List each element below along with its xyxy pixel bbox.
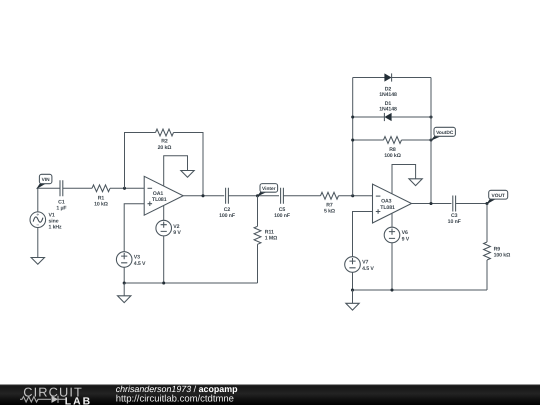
node VOUT junction — [485, 202, 488, 205]
node diode-loop left junction — [351, 194, 354, 197]
wire OA1 V- pin to V2 — [163, 206, 165, 221]
op-amp OA1 — [144, 176, 183, 215]
wire V7 to bottom rail — [352, 272, 354, 290]
voltage source V1 (sine) — [30, 212, 62, 231]
svg-text:C2: C2 — [224, 207, 231, 213]
wire C3 to VOUT node — [456, 203, 487, 205]
ground below V1 — [31, 258, 44, 265]
node Vinter junction — [256, 194, 259, 197]
svg-text:http://circuitlab.com/ctdtmne: http://circuitlab.com/ctdtmne — [116, 394, 234, 405]
wire OA3 non-inverting input to V7 — [353, 212, 373, 257]
wire V3 to bottom rail — [123, 267, 125, 283]
wire rail to ground — [123, 283, 125, 296]
svg-text:C5: C5 — [279, 207, 286, 213]
wire OA1 V+ pin to ground — [164, 156, 188, 186]
svg-text:100 kΩ: 100 kΩ — [494, 253, 511, 259]
ground OA3 positive supply — [409, 179, 422, 186]
node R8 left junction — [351, 138, 354, 141]
svg-text:VOUT: VOUT — [492, 193, 505, 199]
footer bar — [0, 385, 540, 405]
wire OA3 V- pin to V6 — [391, 213, 393, 227]
svg-text:LAB: LAB — [65, 396, 92, 405]
svg-text:1 µF: 1 µF — [56, 206, 66, 212]
resistor R11 — [254, 226, 277, 244]
svg-text:TL081: TL081 — [152, 197, 167, 203]
node OA3 output junction — [429, 202, 432, 205]
flag VOUT — [486, 190, 508, 204]
wire D1 rail left — [353, 116, 385, 118]
svg-text:100 kΩ: 100 kΩ — [384, 153, 401, 159]
logo squiggle resistor and diode — [20, 396, 65, 403]
wire V6 to bottom rail — [391, 243, 393, 290]
capacitor C5 — [274, 188, 290, 219]
node OA1 output junction — [201, 194, 204, 197]
svg-text:R7: R7 — [326, 202, 333, 208]
wire VIN to C1 — [37, 187, 60, 189]
svg-text:VoutDC: VoutDC — [436, 130, 454, 136]
svg-text:20 kΩ: 20 kΩ — [158, 145, 172, 151]
svg-text:R9: R9 — [494, 247, 501, 253]
wire feedback left leg — [125, 133, 156, 189]
svg-text:1N4148: 1N4148 — [379, 107, 397, 113]
node D1 right junction — [429, 115, 432, 118]
wire right bottom rail — [353, 289, 488, 291]
capacitor C2 — [219, 188, 235, 219]
capacitor C1 — [56, 180, 66, 211]
svg-text:V3: V3 — [134, 255, 140, 261]
resistor R7 — [321, 192, 339, 214]
wire OA3 output — [412, 203, 452, 205]
node D1 left junction — [351, 115, 354, 118]
wire C1 to R1 — [63, 187, 92, 189]
wire V1 to input node — [37, 188, 39, 212]
svg-text:C3: C3 — [451, 213, 458, 219]
svg-text:R11: R11 — [265, 229, 274, 235]
wire left feedback rail — [352, 78, 354, 196]
wire left bottom rail — [124, 282, 257, 284]
svg-text:1 kHz: 1 kHz — [49, 225, 63, 231]
node V7/ground junction — [351, 288, 354, 291]
wire R9 to bottom rail — [486, 260, 488, 290]
diode D2 — [379, 73, 397, 98]
node junction R1/R2 — [123, 187, 126, 190]
capacitor C3 — [448, 196, 461, 226]
svg-text:VIN: VIN — [42, 177, 51, 183]
wire OA1 output — [183, 195, 224, 197]
svg-text:9 V: 9 V — [173, 230, 181, 236]
svg-text:9 V: 9 V — [402, 236, 410, 242]
svg-text:chrisanderson1973 / acopamp: chrisanderson1973 / acopamp — [116, 384, 238, 394]
diode D1 — [379, 101, 397, 121]
wire rail to ground right — [352, 290, 354, 303]
svg-text:10 nF: 10 nF — [448, 219, 461, 225]
voltage source V6 — [384, 227, 410, 243]
flag VoutDC — [430, 127, 455, 141]
svg-text:4.5 V: 4.5 V — [134, 261, 146, 267]
svg-text:5 kΩ: 5 kΩ — [324, 209, 335, 215]
svg-text:OA1: OA1 — [153, 191, 164, 197]
svg-text:100 nF: 100 nF — [219, 213, 235, 219]
svg-text:R8: R8 — [389, 147, 396, 153]
wire R7 to OA3 inverting input — [339, 195, 373, 197]
wire R8 rail right — [402, 139, 432, 141]
node V2 bottom junction — [162, 281, 165, 284]
wire top rail right of D2 — [391, 77, 431, 79]
wire R11 to bottom rail — [257, 244, 259, 283]
voltage source V7 — [345, 257, 375, 273]
svg-text:R2: R2 — [161, 139, 168, 145]
svg-text:R1: R1 — [98, 195, 105, 201]
wire R8 rail left — [353, 139, 384, 141]
voltage source V3 — [116, 252, 146, 268]
wire C5 to R7 — [283, 195, 320, 197]
node V6 bottom junction — [390, 288, 393, 291]
ground OA1 positive supply — [181, 171, 194, 178]
node R8 right junction — [429, 138, 432, 141]
svg-text:1N4148: 1N4148 — [379, 92, 397, 98]
svg-text:OA3: OA3 — [381, 199, 392, 205]
wire Vinter to R11 — [257, 196, 259, 227]
wire right feedback rail — [430, 78, 432, 204]
wire top rail left of D2 — [353, 77, 385, 79]
svg-text:sine: sine — [49, 219, 59, 225]
svg-text:4.5 V: 4.5 V — [362, 266, 374, 272]
svg-text:Vinter: Vinter — [262, 186, 276, 192]
resistor R2 — [156, 129, 174, 151]
voltage source V2 — [156, 220, 182, 236]
resistor R9 — [484, 242, 511, 260]
wire OA3 V+ pin to ground — [392, 165, 416, 194]
wire V2 to bottom rail — [163, 236, 165, 283]
svg-text:V2: V2 — [173, 224, 179, 230]
wire R1 to OA1 inverting input — [110, 187, 144, 189]
flag Vinter — [257, 184, 278, 197]
svg-text:1 MΩ: 1 MΩ — [265, 236, 277, 242]
flag VIN — [36, 174, 52, 189]
svg-text:10 kΩ: 10 kΩ — [94, 202, 108, 208]
svg-text:100 nF: 100 nF — [274, 213, 290, 219]
ground below V7 — [346, 303, 359, 310]
svg-text:TL081: TL081 — [380, 205, 395, 211]
resistor R8 — [384, 137, 402, 159]
wire C2 to Vinter node — [228, 195, 279, 197]
resistor R1 — [92, 185, 110, 208]
svg-text:V6: V6 — [402, 230, 408, 236]
svg-text:V7: V7 — [362, 260, 368, 266]
wire feedback right leg — [174, 133, 204, 196]
node V3/ground junction — [123, 281, 126, 284]
wire D1 rail right — [391, 116, 431, 118]
wire OA1 non-inverting input to V3 — [124, 204, 144, 252]
wire V1 to ground — [37, 228, 39, 258]
svg-text:C1: C1 — [58, 199, 65, 205]
svg-text:V1: V1 — [49, 212, 55, 218]
op-amp OA3 — [373, 184, 412, 223]
ground below V3 — [118, 296, 131, 303]
wire VOUT to R9 — [486, 204, 488, 243]
